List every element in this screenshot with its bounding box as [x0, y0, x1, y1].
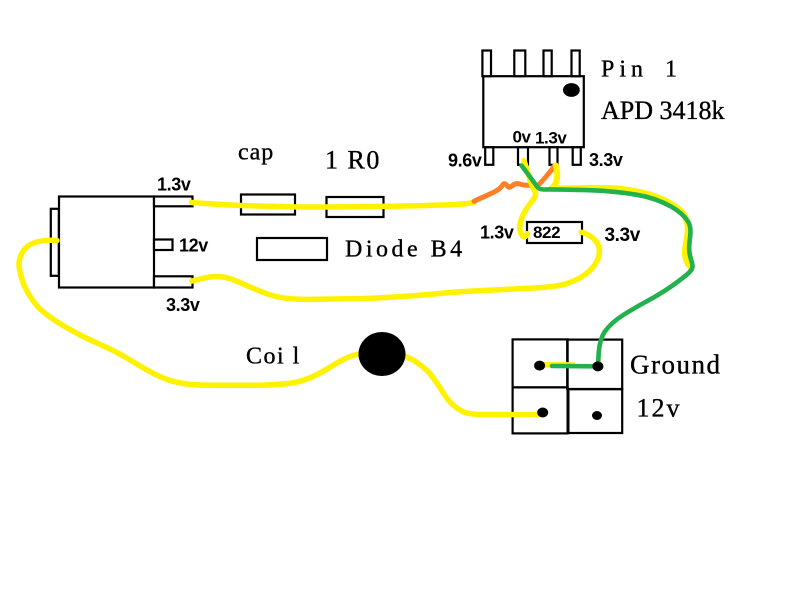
ground block bottom-left cell — [513, 387, 568, 433]
diode B4 body — [257, 238, 327, 260]
svg-text:12v: 12v — [179, 236, 208, 256]
connector J1 body — [59, 197, 154, 288]
wire: orange from 1R0 wire end up to IC pin 7 — [474, 166, 554, 202]
IC pin-1 marker dot — [563, 83, 580, 97]
svg-text:1.3v: 1.3v — [480, 223, 514, 243]
svg-text:3.3v: 3.3v — [605, 225, 641, 246]
wire: yellow loop from IC pin 7 paralleling the green wire to the right — [552, 166, 691, 268]
ground pad dot bottom-right — [592, 411, 602, 420]
wire: yellow from connector 1.3v tab through cap and 1R0 to the right — [192, 202, 475, 207]
IC top pin 2 — [514, 51, 525, 77]
svg-text:APD 3418k: APD 3418k — [601, 96, 725, 125]
connector pin 1.3v tab — [154, 197, 193, 207]
wire: yellow from connector left terminal down-around to coil — [19, 240, 360, 385]
svg-text:0v: 0v — [513, 128, 532, 147]
connector pin 3.3v tab — [154, 276, 193, 287]
svg-text:1.3v: 1.3v — [157, 175, 191, 195]
connector J1 left terminal — [51, 209, 59, 276]
svg-text:3.3v: 3.3v — [589, 150, 623, 170]
wire: green jumper to ground block top-right dot — [552, 364, 596, 369]
resistor 822 body — [527, 222, 582, 243]
ground pad dot bottom-left — [537, 408, 548, 418]
IC bottom pin 6 (0v) — [518, 147, 528, 165]
svg-text:9.6v: 9.6v — [448, 151, 482, 171]
IC U1 body APD 3418k — [483, 76, 584, 147]
svg-text:Ground: Ground — [630, 350, 722, 380]
IC bottom pin 5 (9.6v) — [485, 147, 493, 165]
ground block bottom-right cell — [568, 389, 622, 433]
connector pin 12v tab — [154, 240, 173, 251]
IC bottom pin 7 (1.3v) — [550, 147, 558, 165]
ground pad dot top-left — [534, 361, 545, 371]
wire: green from IC pin 6 diagonally then around right loop to ground block — [522, 166, 693, 367]
svg-text:1 R0: 1 R0 — [325, 146, 381, 175]
svg-text:Pin 1: Pin 1 — [601, 57, 682, 83]
svg-text:cap: cap — [238, 140, 274, 166]
IC top pin 3 — [544, 51, 552, 77]
svg-text:Coi l: Coi l — [246, 344, 301, 370]
svg-text:1.3v: 1.3v — [535, 129, 567, 148]
capacitor "cap" body — [241, 195, 295, 215]
ground block top-right cell — [567, 340, 622, 389]
IC bottom pin 8 (3.3v) — [573, 147, 581, 165]
resistor 1R0 body — [327, 197, 384, 217]
ground pad dot top-right — [592, 361, 603, 371]
coil node (black disc) — [359, 332, 406, 376]
svg-text:Diode B4: Diode B4 — [345, 237, 466, 263]
wire: yellow from IC pin 6 down to 822 left pin — [520, 161, 536, 237]
IC top pin 4 — [572, 51, 580, 77]
ground block top-left cell — [513, 339, 568, 387]
svg-text:12v: 12v — [637, 394, 682, 423]
wire: yellow jumper between ground block dots — [541, 362, 573, 368]
svg-text:3.3v: 3.3v — [166, 295, 200, 315]
svg-text:822: 822 — [533, 223, 560, 242]
IC top pin 1 — [482, 51, 491, 77]
wire: yellow from coil to ground block lower-left dot — [403, 356, 539, 415]
wire: yellow from connector 3.3v tab along bottom to 822 right pin — [192, 232, 599, 299]
